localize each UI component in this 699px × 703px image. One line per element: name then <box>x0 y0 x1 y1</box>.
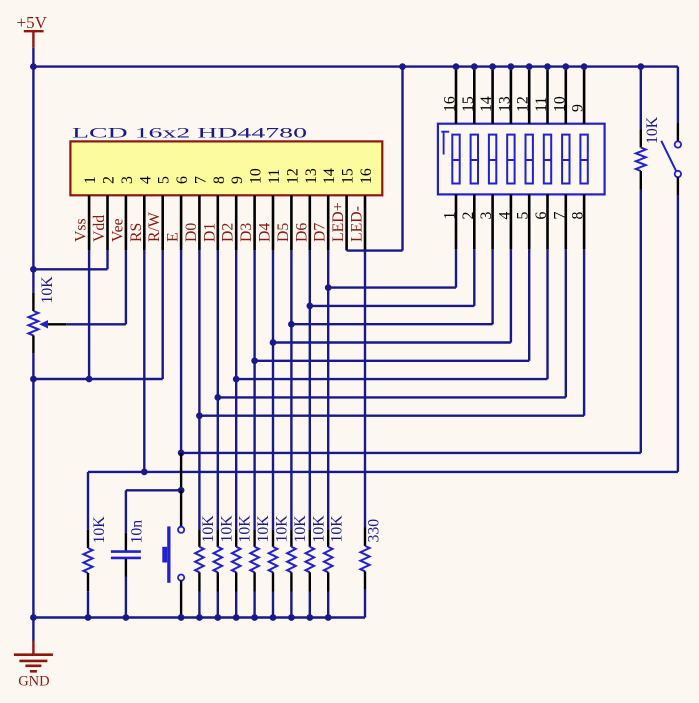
svg-text:D2: D2 <box>220 223 237 242</box>
svg-text:11: 11 <box>266 169 283 184</box>
resistor 10K pull-down D7 <box>324 530 333 618</box>
node LCD pin 1 Vss junction <box>86 376 93 383</box>
wire top +5V rail <box>33 65 678 67</box>
resistor 10K pull-down D0 <box>195 530 204 618</box>
svg-text:10K: 10K <box>255 515 272 543</box>
svg-text:6: 6 <box>533 212 550 220</box>
wire LED- (pin 16) down to resistor 330 <box>364 250 366 528</box>
LCD pin name labels <box>73 202 366 242</box>
DIP switch S1 box <box>438 124 605 195</box>
svg-text:Vss: Vss <box>73 218 90 242</box>
node pull-down D1 on ground rail <box>214 614 221 621</box>
wire D4 (pin 11) to DIP pin 4 <box>272 250 274 530</box>
DIP switch sliders <box>452 135 588 184</box>
wire from +5V to top rail <box>32 48 34 67</box>
node pull-down D3 on ground rail <box>251 614 258 621</box>
node pull-down D6 on ground rail <box>306 614 313 621</box>
svg-text:12: 12 <box>515 96 532 112</box>
svg-text:+5V: +5V <box>17 13 48 32</box>
svg-text:10K: 10K <box>310 515 327 543</box>
node RS pull-down on ground rail <box>85 614 92 621</box>
resistor R2 10K pull-up (E line) <box>636 67 646 190</box>
svg-text:8: 8 <box>570 212 587 220</box>
svg-text:3: 3 <box>478 212 495 220</box>
node LED+ rail junction <box>399 63 406 70</box>
node capacitor junction on E line <box>178 487 185 494</box>
svg-text:11: 11 <box>533 97 550 112</box>
resistor 10K pull-down D6 <box>306 530 315 618</box>
svg-text:D7: D7 <box>312 223 329 242</box>
svg-text:6: 6 <box>174 176 191 184</box>
node D7 junction <box>325 284 332 291</box>
resistor 10K pull-down D4 <box>269 530 278 618</box>
svg-text:14: 14 <box>478 96 495 112</box>
resistor R3 10K pull-down (RS line) <box>83 472 92 618</box>
svg-text:1: 1 <box>82 176 99 184</box>
LCD pin numbers 1-16 <box>82 168 375 184</box>
svg-text:7: 7 <box>192 176 209 184</box>
wire bottom ground rail <box>33 616 365 618</box>
wire D5 (pin 12) to DIP pin 3 <box>290 250 292 530</box>
svg-text:9: 9 <box>229 176 246 184</box>
wire left vertical (+5V to potentiometer) <box>32 67 34 293</box>
resistor 10K pull-down D1 <box>214 530 223 618</box>
svg-text:2: 2 <box>460 212 477 220</box>
node D3 junction <box>251 357 258 364</box>
node D6 junction <box>306 303 313 310</box>
wire pot wiper to LCD pin 3 Vee <box>66 323 126 325</box>
svg-text:1: 1 <box>442 212 459 220</box>
node D4 junction <box>270 339 277 346</box>
svg-text:13: 13 <box>496 96 513 112</box>
node button on ground rail <box>178 614 185 621</box>
switch SW1 (RS select) <box>661 67 681 196</box>
wire D1 (pin 8) to DIP pin 7 <box>217 250 219 530</box>
svg-text:D3: D3 <box>238 223 255 242</box>
capacitor C1 10n <box>111 490 181 617</box>
svg-text:10K: 10K <box>644 116 661 144</box>
wire ground branch to LCD pin 1 and pin 5 <box>33 378 162 380</box>
svg-text:10: 10 <box>551 96 568 112</box>
svg-text:10K: 10K <box>237 515 254 543</box>
node D2 junction <box>233 376 240 383</box>
DIP switch pin-1 T mark <box>441 132 449 155</box>
resistor R4 330 (LED backlight) <box>360 528 369 618</box>
node Vdd branch junction <box>30 266 37 273</box>
DIP top pin numbers <box>442 96 587 112</box>
svg-text:12: 12 <box>284 168 301 184</box>
DIP top pins 16-9 <box>456 67 584 124</box>
wire E (pin 6) down to junction <box>180 250 182 453</box>
node E junction <box>178 450 185 457</box>
node ground rail left junction <box>30 614 37 621</box>
node pull-down D4 on ground rail <box>270 614 277 621</box>
wire D0 (pin 7) to DIP pin 8 <box>198 250 200 530</box>
node pull-down D5 on ground rail <box>288 614 295 621</box>
svg-text:LED+: LED+ <box>330 202 347 242</box>
svg-text:D5: D5 <box>275 223 292 242</box>
svg-text:8: 8 <box>211 176 228 184</box>
potentiometer R1 10K (LCD contrast) <box>28 293 66 354</box>
resistor 10K pull-down D5 <box>287 530 296 618</box>
svg-text:15: 15 <box>340 168 357 184</box>
node capacitor on ground rail <box>123 614 130 621</box>
svg-text:Vdd: Vdd <box>91 215 108 242</box>
node pull-down D2 on ground rail <box>233 614 240 621</box>
svg-text:10: 10 <box>248 168 265 184</box>
resistor 10K pull-down D2 <box>232 530 241 618</box>
wire D3 (pin 10) to DIP pin 5 <box>253 250 255 530</box>
node RS junction <box>141 469 148 476</box>
svg-text:5: 5 <box>515 212 532 220</box>
wire RS (pin 4) down to junction <box>143 250 145 472</box>
svg-text:RS: RS <box>128 223 145 242</box>
svg-text:Vee: Vee <box>109 218 126 242</box>
svg-text:5: 5 <box>156 176 173 184</box>
svg-text:10K: 10K <box>39 276 56 304</box>
svg-text:10K: 10K <box>218 515 235 543</box>
wire E row to capacitor <box>180 453 182 490</box>
svg-text:3: 3 <box>119 176 136 184</box>
node 10K pull-up on rail <box>637 63 644 70</box>
resistor 10K pull-down D3 <box>250 530 259 618</box>
svg-text:10K: 10K <box>329 515 346 543</box>
LCD pin stubs (black) <box>89 195 365 250</box>
svg-text:10K: 10K <box>292 515 309 543</box>
svg-text:4: 4 <box>137 176 154 184</box>
wire pot bottom to ground rail <box>32 354 34 618</box>
node D5 junction <box>288 321 295 328</box>
node Vss/RW ground branch junction <box>30 376 37 383</box>
node pull-down D7 on ground rail <box>325 614 332 621</box>
nodes DIP top pins on rail <box>453 63 588 70</box>
DIP bottom pins 1-8 <box>456 194 584 249</box>
svg-text:7: 7 <box>551 212 568 220</box>
wire switch to RS row <box>677 196 679 472</box>
node D1 junction <box>214 394 221 401</box>
svg-text:GND: GND <box>18 674 49 690</box>
wire E row to pull-up resistor <box>181 452 641 454</box>
svg-text:2: 2 <box>101 176 118 184</box>
svg-text:14: 14 <box>321 168 338 184</box>
svg-text:10K: 10K <box>274 515 291 543</box>
svg-text:9: 9 <box>570 104 587 112</box>
svg-text:10K: 10K <box>91 516 108 544</box>
svg-text:16: 16 <box>442 96 459 112</box>
svg-text:D6: D6 <box>293 223 310 242</box>
wire LED+ (pin 15) to +5V rail <box>345 249 347 252</box>
svg-text:D4: D4 <box>257 223 274 242</box>
svg-text:4: 4 <box>496 212 513 220</box>
svg-text:R/W: R/W <box>146 212 163 242</box>
LCD module U1 box <box>70 141 382 195</box>
node +5V rail left junction <box>30 63 37 70</box>
svg-text:10n: 10n <box>129 520 146 544</box>
svg-text:D0: D0 <box>183 223 200 242</box>
svg-text:LCD 16x2 HD44780: LCD 16x2 HD44780 <box>72 126 307 142</box>
DIP bottom pin numbers <box>442 212 587 220</box>
svg-text:15: 15 <box>460 96 477 112</box>
svg-text:330: 330 <box>366 519 383 543</box>
svg-text:13: 13 <box>303 168 320 184</box>
svg-text:10K: 10K <box>200 515 217 543</box>
ground symbol GND <box>14 618 53 690</box>
svg-text:16: 16 <box>358 168 375 184</box>
wire Vdd branch to LCD pin 2 <box>33 268 107 270</box>
wire D2 (pin 9) to DIP pin 6 <box>235 250 237 530</box>
push button S2 (E strobe) <box>162 490 184 617</box>
svg-text:E: E <box>165 232 182 242</box>
node D0 junction <box>196 412 203 419</box>
node pull-down D0 on ground rail <box>196 614 203 621</box>
+5V supply symbol <box>17 13 48 48</box>
wire D7 (pin 14) to DIP pin 1 <box>327 250 329 530</box>
svg-text:D1: D1 <box>201 223 218 242</box>
svg-text:LED-: LED- <box>349 206 366 242</box>
wire D6 (pin 13) to DIP pin 2 <box>309 250 311 530</box>
